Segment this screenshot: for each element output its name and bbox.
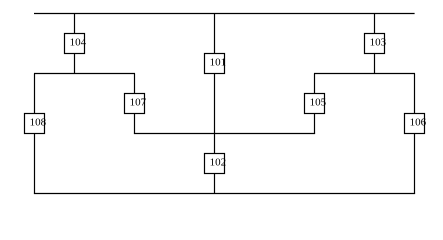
- svg-text:104: 104: [70, 36, 87, 48]
- svg-text:106: 106: [410, 116, 427, 128]
- box 105: [305, 94, 327, 114]
- svg-text:103: 103: [370, 36, 387, 48]
- svg-text:107: 107: [130, 96, 147, 108]
- wire 104 down to left manifold: [74, 54, 76, 74]
- wire right manifold down to 106: [414, 74, 416, 114]
- svg-text:101: 101: [210, 56, 227, 68]
- wire right manifold: [314, 73, 415, 75]
- svg-text:105: 105: [310, 96, 327, 108]
- wire top bus: [34, 13, 415, 15]
- box 102: [205, 154, 227, 174]
- wire left manifold down to 107: [134, 74, 136, 94]
- wire 106 down to bottom bus: [414, 134, 416, 194]
- svg-text:102: 102: [210, 156, 227, 168]
- wire bottom bus: [34, 193, 415, 195]
- wire left manifold down to 108: [34, 74, 36, 114]
- box 108: [25, 114, 47, 134]
- box 101: [205, 54, 227, 74]
- box 104: [65, 34, 87, 54]
- wire 107 down to cross manifold: [134, 114, 136, 134]
- wire right manifold down to 105: [314, 74, 316, 94]
- wire 108 down to bottom bus: [34, 134, 36, 194]
- wire bus down to 104: [74, 14, 76, 34]
- wire cross manifold: [134, 133, 315, 135]
- wire 103 down to right manifold: [374, 54, 376, 74]
- wire left manifold: [34, 73, 135, 75]
- box 103: [365, 34, 387, 54]
- box 107: [125, 94, 147, 114]
- wire 102 down to bottom bus: [214, 174, 216, 194]
- wire bus down to 103: [374, 14, 376, 34]
- svg-text:108: 108: [30, 116, 47, 128]
- wire 105 down to cross manifold: [314, 114, 316, 134]
- box 106: [405, 114, 427, 134]
- wire 101 down to 102: [214, 74, 216, 154]
- wire bus down to 101: [214, 14, 216, 54]
